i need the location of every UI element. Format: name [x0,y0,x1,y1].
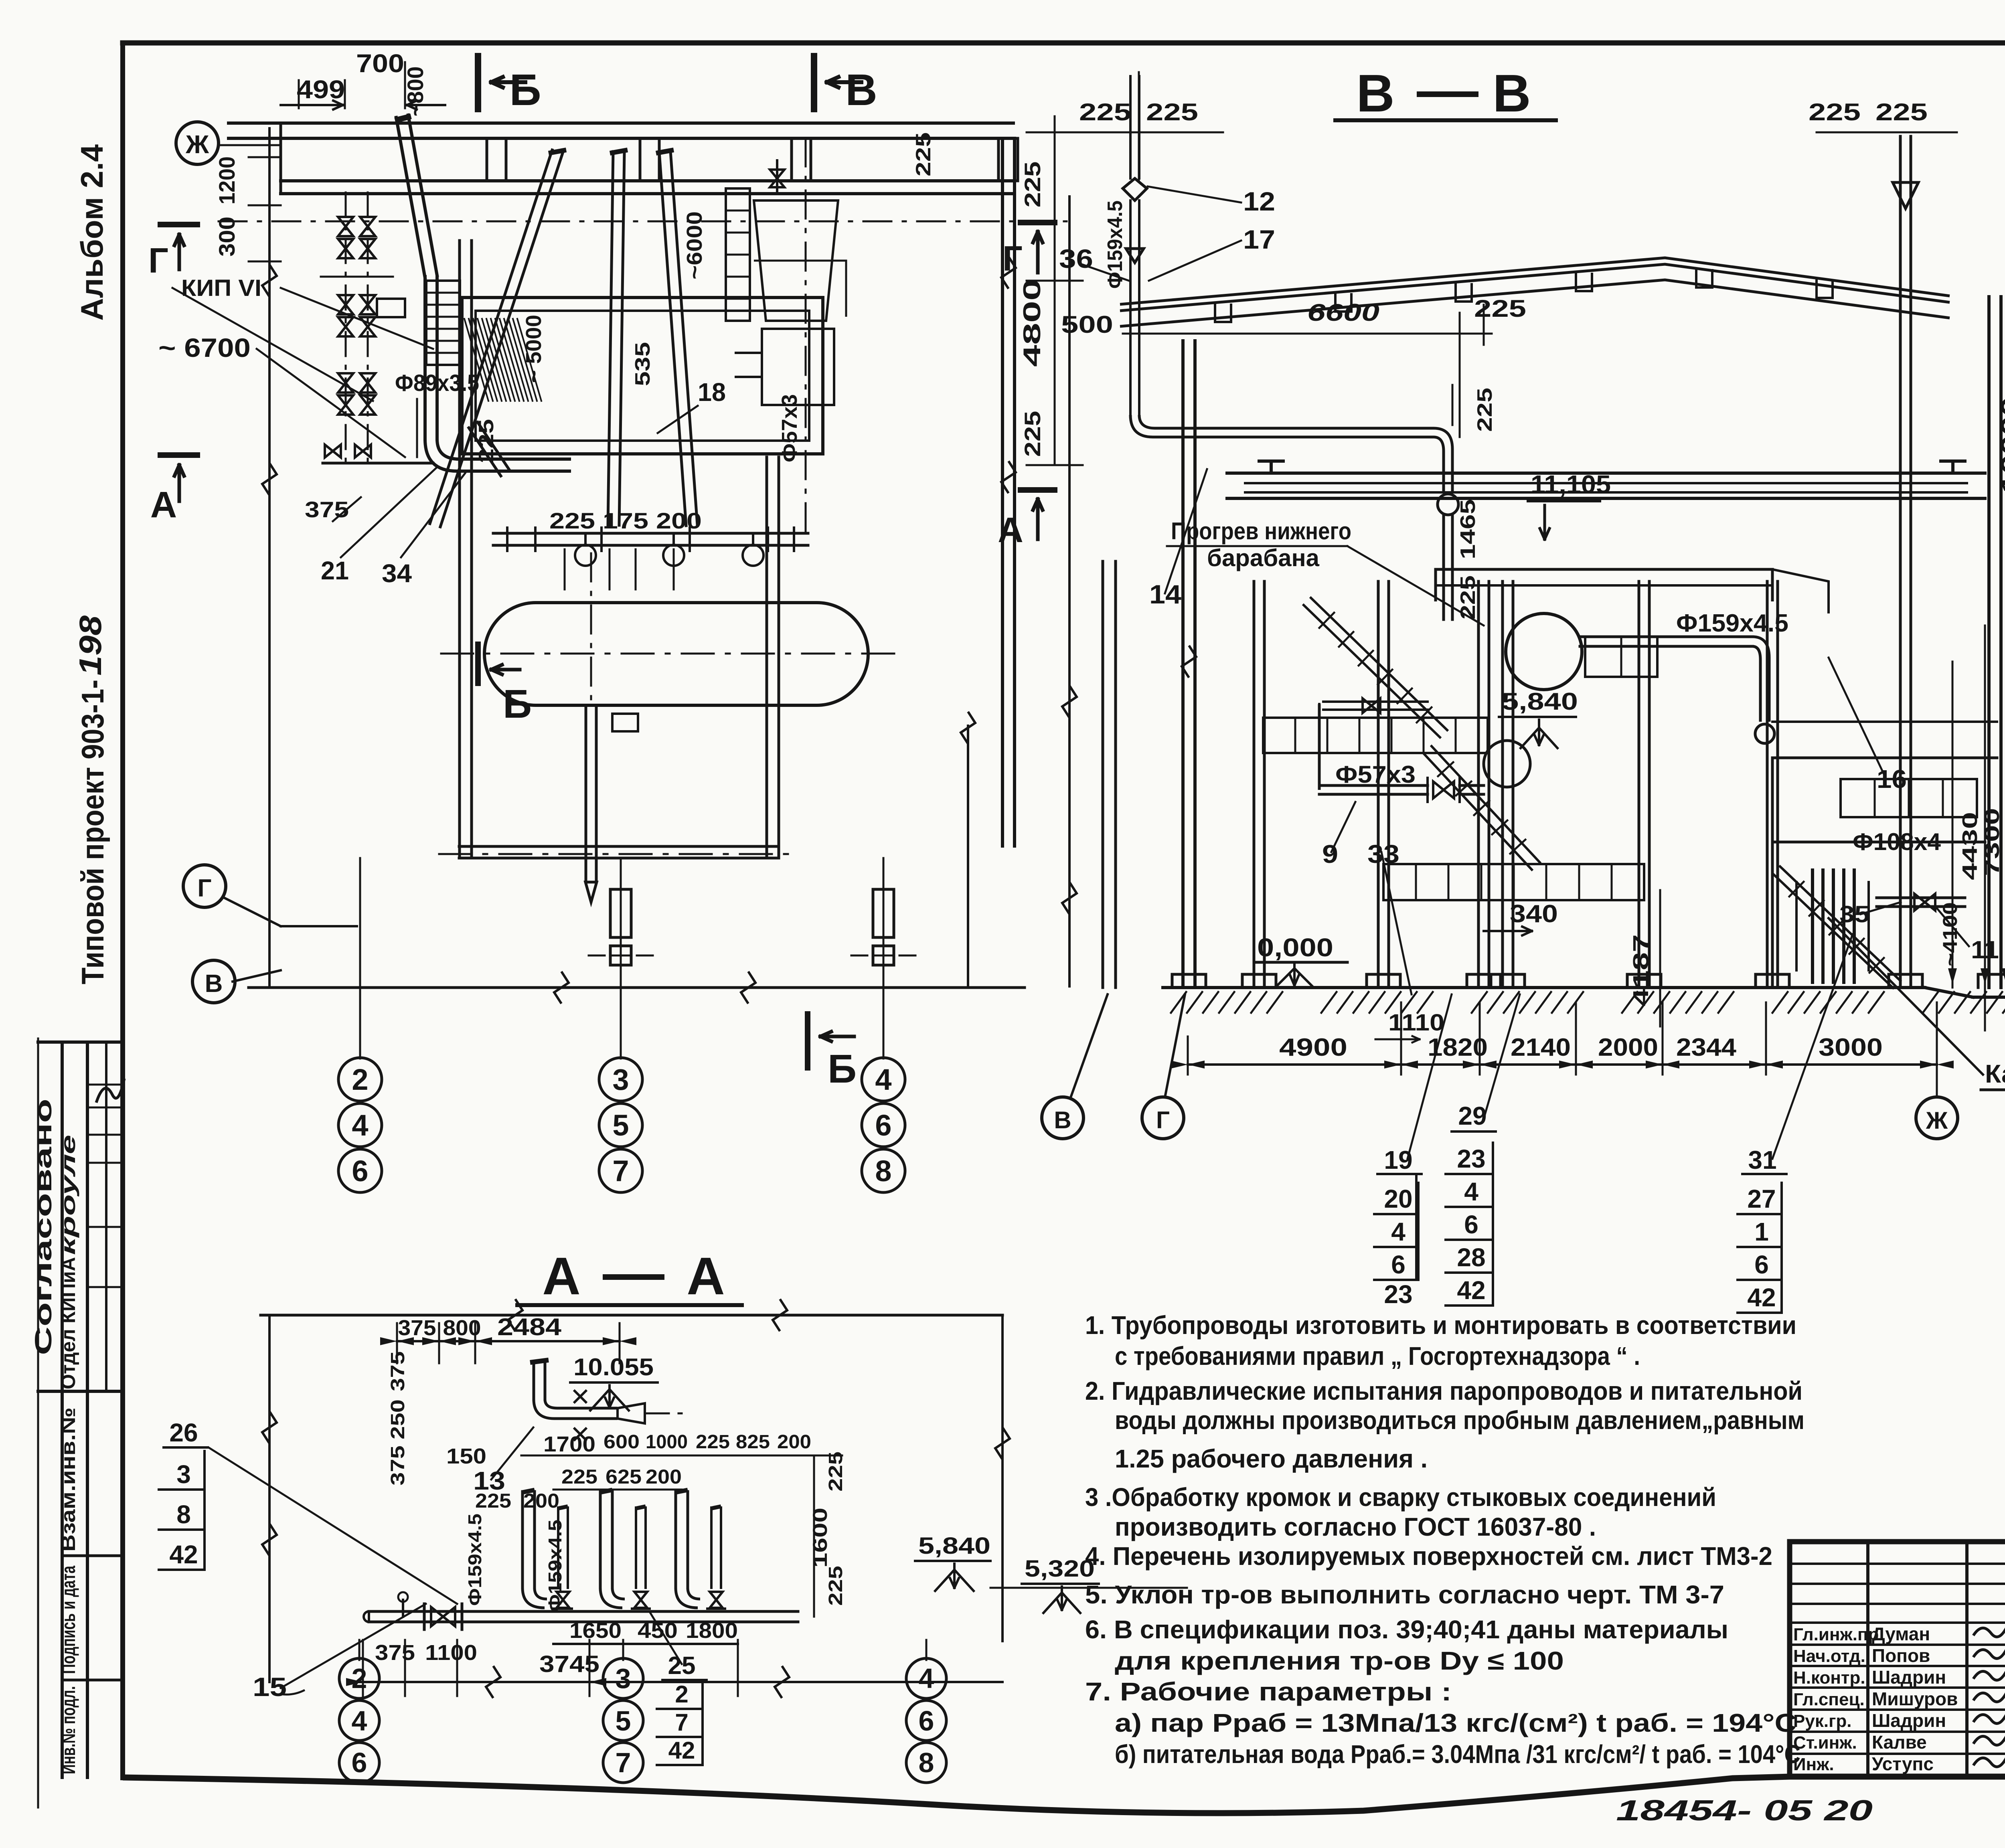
svg-text:23: 23 [1457,1144,1485,1173]
svg-text:225: 225 [1020,162,1045,208]
svg-text:Нач.отд.: Нач.отд. [1793,1646,1865,1666]
svg-text:225: 225 [1809,99,1861,125]
svg-text:10000: 10000 [1997,397,2005,493]
svg-text:~4100: ~4100 [1939,902,1961,966]
svg-text:225: 225 [1020,411,1045,457]
svg-text:Б: Б [509,65,541,115]
svg-text:225: 225 [825,1566,847,1606]
svg-text:воды должны производиться п: воды должны производиться пробным давлен… [1115,1406,1804,1435]
svg-text:А: А [542,1247,580,1306]
svg-text:6: 6 [352,1747,367,1778]
svg-text:Ж: Ж [185,130,209,159]
svg-text:1.25 рабочего давления .: 1.25 рабочего давления . [1115,1444,1428,1473]
svg-text:225: 225 [475,1490,511,1512]
svg-text:7: 7 [616,1747,631,1778]
svg-text:225: 225 [825,1451,847,1492]
svg-text:225: 225 [475,419,498,463]
svg-text:225: 225 [1473,388,1497,432]
svg-text:для крепления тр-ов Dy ≤ 1: для крепления тр-ов Dy ≤ 100 [1115,1646,1564,1675]
svg-text:3: 3 [616,1663,631,1694]
svg-text:6: 6 [875,1109,891,1142]
svg-text:198: 198 [73,615,108,676]
svg-text:Ф89х3.5: Ф89х3.5 [395,370,479,396]
svg-text:31: 31 [1748,1146,1776,1174]
svg-text:Инв.№ подл.: Инв.№ подл. [58,1686,79,1774]
svg-text:барабана: барабана [1207,544,1320,571]
svg-text:225: 225 [696,1431,730,1453]
svg-text:375: 375 [305,497,349,522]
svg-text:250: 250 [387,1399,409,1439]
svg-text:5,840: 5,840 [918,1533,990,1559]
svg-text:7: 7 [612,1154,629,1188]
svg-text:4900: 4900 [1279,1034,1347,1061]
svg-text:6. В спецификации поз. 39;40;: 6. В спецификации поз. 39;40;41 даны мат… [1085,1615,1728,1644]
svg-text:2344: 2344 [1676,1034,1737,1061]
svg-text:10.055: 10.055 [573,1354,654,1380]
svg-text:Ф57х3: Ф57х3 [1335,761,1416,788]
svg-text:Отдел КИПиА: Отдел КИПиА [57,1257,79,1389]
svg-text:КИП VI: КИП VI [181,275,261,301]
svg-text:Ф159х4.5: Ф159х4.5 [1104,200,1127,289]
svg-text:Ф108х4: Ф108х4 [1853,828,1941,855]
svg-text:4800: 4800 [1019,279,1045,367]
svg-text:Подпись и дата: Подпись и дата [58,1566,79,1674]
svg-text:Согласовано: Согласовано [30,1099,57,1355]
svg-text:Б: Б [503,682,532,727]
svg-text:2: 2 [675,1681,688,1708]
svg-text:2: 2 [352,1663,367,1694]
svg-text:6: 6 [1754,1250,1769,1279]
svg-text:А: А [150,484,177,525]
svg-text:2. Гидравлические испытания: 2. Гидравлические испытания паропроводов… [1085,1376,1802,1405]
svg-text:4430: 4430 [1958,812,1982,880]
svg-text:23: 23 [1384,1280,1412,1309]
svg-text:535: 535 [631,342,654,386]
svg-text:Г: Г [148,241,168,280]
svg-text:5,840: 5,840 [1502,688,1578,715]
svg-text:26: 26 [169,1418,198,1447]
svg-text:4: 4 [1391,1217,1406,1246]
svg-text:36: 36 [1059,244,1093,273]
svg-text:42: 42 [1457,1276,1485,1305]
svg-text:18: 18 [698,378,726,407]
svg-text:2140: 2140 [1511,1034,1571,1061]
svg-text:Ж: Ж [1926,1107,1948,1134]
svg-text:2: 2 [352,1063,368,1096]
svg-text:225: 225 [1146,99,1198,125]
svg-text:225: 225 [1474,295,1526,322]
svg-text:12: 12 [1243,186,1275,216]
svg-text:34: 34 [382,559,412,588]
svg-text:6: 6 [1464,1210,1478,1239]
svg-text:225: 225 [561,1465,597,1488]
svg-text:21: 21 [321,556,349,585]
svg-text:499: 499 [297,75,345,104]
svg-text:5,320: 5,320 [1025,1556,1095,1582]
svg-text:5: 5 [616,1705,631,1737]
svg-text:Калориферы: Калориферы [1985,1059,2005,1088]
svg-text:Шадрин: Шадрин [1872,1667,1946,1688]
svg-text:кроуле: кроуле [57,1135,79,1255]
svg-text:28: 28 [1457,1243,1485,1272]
svg-text:0,000: 0,000 [1257,933,1333,962]
svg-text:Уступс: Уступс [1872,1753,1934,1774]
svg-text:300: 300 [214,217,239,257]
svg-text:Г: Г [1003,239,1023,278]
svg-text:42: 42 [668,1737,695,1764]
svg-text:1: 1 [1754,1217,1769,1246]
svg-text:20: 20 [1384,1184,1412,1213]
svg-text:8: 8 [875,1154,891,1188]
svg-text:Н.контр.: Н.контр. [1793,1668,1865,1688]
svg-text:4: 4 [919,1663,934,1694]
svg-text:3: 3 [176,1460,191,1489]
svg-text:Рук.гр.: Рук.гр. [1793,1711,1852,1731]
svg-text:Г: Г [1156,1107,1170,1133]
svg-text:600: 600 [604,1431,640,1453]
svg-text:17: 17 [1243,225,1275,254]
svg-text:29: 29 [1458,1101,1487,1130]
svg-text:3: 3 [612,1063,629,1096]
svg-text:19: 19 [1384,1146,1412,1174]
svg-text:375: 375 [387,1351,409,1391]
svg-text:225 175 200: 225 175 200 [549,508,702,533]
svg-text:производить согласно ГОСТ 1: производить согласно ГОСТ 16037-80 . [1115,1512,1596,1541]
svg-text:с требованиями правил „ Гос: с требованиями правил „ Госгортехнадзора… [1115,1342,1640,1370]
svg-text:1800: 1800 [686,1619,738,1643]
svg-text:150: 150 [446,1444,486,1468]
svg-text:35: 35 [1839,901,1869,927]
svg-text:225: 225 [1079,99,1131,125]
svg-text:500: 500 [1061,311,1113,338]
svg-text:А: А [687,1247,725,1306]
svg-text:375: 375 [387,1445,409,1486]
svg-text:340: 340 [1510,900,1558,928]
svg-text:625: 625 [606,1465,642,1488]
svg-text:7: 7 [675,1709,688,1736]
svg-text:Ф159х4.5: Ф159х4.5 [464,1514,485,1606]
svg-text:~6000: ~6000 [683,211,707,279]
svg-text:225: 225 [912,132,935,176]
svg-text:225: 225 [1456,575,1480,619]
svg-text:225: 225 [1875,99,1928,125]
svg-text:Гл.инж.пр: Гл.инж.пр [1793,1625,1879,1644]
svg-text:6: 6 [919,1705,934,1737]
svg-text:Шадрин: Шадрин [1872,1710,1946,1731]
svg-text:В: В [845,65,877,115]
svg-text:В: В [205,970,223,998]
svg-text:4: 4 [1464,1177,1478,1206]
svg-text:Попов: Попов [1872,1645,1930,1666]
svg-text:27: 27 [1747,1184,1776,1213]
svg-text:Альбом 2.4: Альбом 2.4 [74,144,109,321]
svg-text:18454- 05 20: 18454- 05 20 [1616,1795,1873,1827]
svg-text:Калве: Калве [1872,1732,1927,1753]
svg-text:Ф159х4.5: Ф159х4.5 [545,1520,565,1612]
svg-text:5: 5 [612,1109,629,1142]
svg-text:1600: 1600 [809,1508,831,1568]
svg-text:В: В [1493,64,1531,123]
svg-text:Гл.спец.: Гл.спец. [1793,1690,1865,1709]
svg-text:375: 375 [375,1641,415,1665]
svg-text:4: 4 [352,1109,368,1142]
svg-text:11,105: 11,105 [1531,470,1611,499]
svg-text:3 .Обработку кромок и сварку: 3 .Обработку кромок и сварку стыковых со… [1085,1483,1716,1512]
svg-text:1700: 1700 [543,1432,595,1456]
svg-text:2000: 2000 [1598,1034,1658,1061]
svg-text:700: 700 [356,49,404,78]
svg-text:825: 825 [736,1431,770,1453]
svg-text:Ф159х4.5: Ф159х4.5 [1676,609,1788,637]
svg-text:~ 6700: ~ 6700 [158,333,251,362]
svg-text:1650: 1650 [569,1619,622,1643]
svg-text:200: 200 [777,1431,811,1453]
svg-text:8: 8 [919,1747,934,1778]
svg-text:450: 450 [638,1619,678,1643]
svg-text:1100: 1100 [425,1641,477,1665]
svg-text:А: А [998,510,1023,550]
svg-text:6: 6 [1391,1250,1406,1279]
svg-text:1000: 1000 [646,1431,688,1453]
svg-text:42: 42 [1747,1283,1776,1312]
svg-text:а) пар Рраб: а) пар Рраб = 13Мпа/13 кгс/(см²) t раб. … [1115,1708,1796,1737]
svg-text:В: В [1054,1107,1071,1133]
svg-text:Типовой проект 903-1-: Типовой проект 903-1- [75,680,110,984]
svg-text:4: 4 [875,1063,891,1096]
svg-text:25: 25 [668,1652,696,1680]
svg-text:6600: 6600 [1307,299,1379,326]
svg-text:7300: 7300 [1981,808,2004,876]
svg-text:~ 5000: ~ 5000 [522,315,546,383]
svg-text:Б: Б [828,1046,857,1091]
svg-text:Ст.инж.: Ст.инж. [1793,1733,1857,1753]
svg-text:Взам.инв.№: Взам.инв.№ [57,1407,79,1552]
svg-text:4. Перечень изолируемых пове: 4. Перечень изолируемых поверхностей см.… [1085,1542,1772,1571]
svg-text:3000: 3000 [1819,1034,1883,1061]
svg-text:1110: 1110 [1388,1010,1444,1036]
svg-text:42: 42 [169,1540,198,1569]
svg-text:200: 200 [646,1465,682,1488]
svg-text:1. Трубопроводы изготовить и: 1. Трубопроводы изготовить и монтировать… [1085,1311,1796,1340]
svg-text:В: В [1356,64,1394,123]
svg-text:6: 6 [352,1154,368,1188]
svg-text:1465: 1465 [1456,499,1480,559]
svg-text:1200: 1200 [214,156,239,204]
svg-text:Г: Г [197,874,211,902]
svg-text:Прогрев нижнего: Прогрев нижнего [1171,518,1351,544]
svg-text:5. Уклон тр-ов выполнить со: 5. Уклон тр-ов выполнить согласно черт. … [1085,1580,1724,1609]
svg-text:7. Рабочие параметры :: 7. Рабочие параметры : [1085,1677,1452,1706]
svg-text:4: 4 [352,1705,367,1737]
svg-text:Мишуров: Мишуров [1872,1688,1958,1709]
svg-text:375: 375 [398,1316,436,1340]
svg-text:б) питательная вода Рраб.= 3.0: б) питательная вода Рраб.= 3.04Мпа /31 к… [1115,1740,1800,1769]
svg-text:8: 8 [176,1500,191,1529]
svg-text:Думан: Думан [1872,1623,1930,1644]
svg-text:4187: 4187 [1629,934,1653,1006]
svg-text:2484: 2484 [497,1314,562,1340]
